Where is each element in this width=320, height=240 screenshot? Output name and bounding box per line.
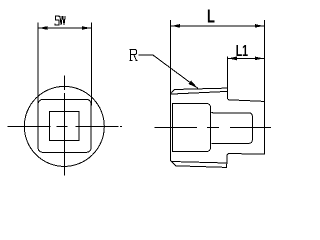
svg-text:L1: L1: [236, 43, 248, 60]
svg-text:L: L: [207, 7, 215, 27]
